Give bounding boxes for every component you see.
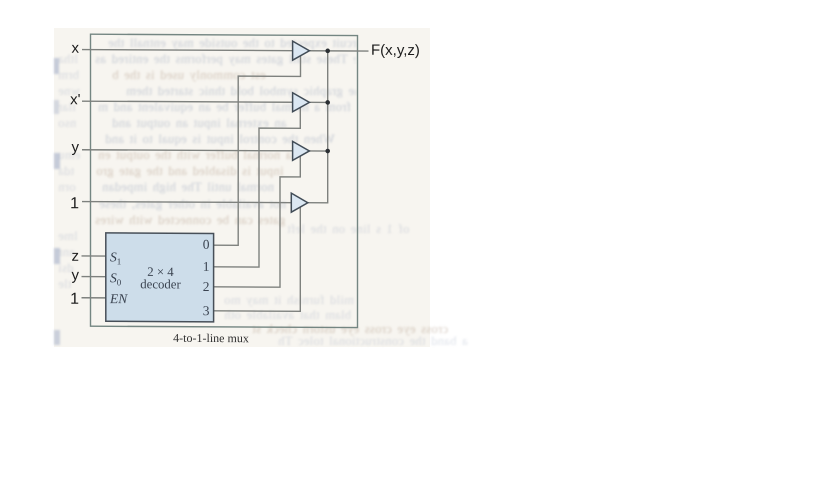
svg-text:1: 1 bbox=[70, 291, 79, 308]
svg-text:3: 3 bbox=[203, 303, 210, 318]
svg-text:2: 2 bbox=[203, 279, 210, 294]
svg-text:decoder: decoder bbox=[140, 277, 181, 291]
svg-text:x': x' bbox=[70, 91, 80, 108]
svg-text:1: 1 bbox=[70, 195, 79, 212]
svg-text:F(x,y,z): F(x,y,z) bbox=[371, 42, 420, 59]
svg-text:EN: EN bbox=[109, 291, 128, 306]
svg-text:1: 1 bbox=[203, 259, 210, 274]
svg-text:y: y bbox=[72, 267, 80, 284]
svg-text:x: x bbox=[72, 40, 80, 57]
svg-text:0: 0 bbox=[203, 237, 210, 252]
svg-text:4-to-1-line mux: 4-to-1-line mux bbox=[173, 331, 249, 345]
svg-text:z: z bbox=[72, 248, 79, 265]
svg-text:y: y bbox=[72, 139, 80, 156]
